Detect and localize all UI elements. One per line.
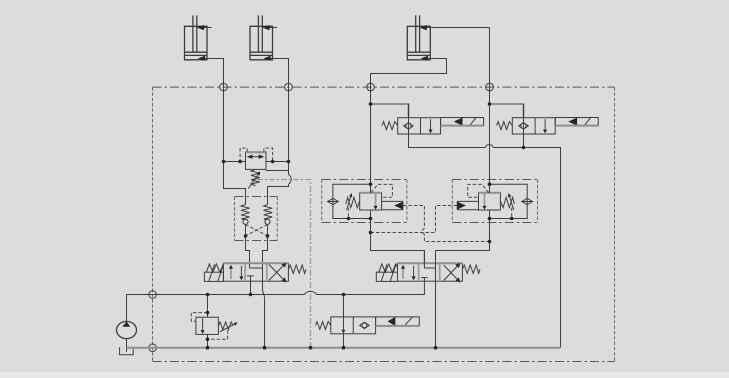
P line (pump pressure rail, hop over drain) <box>127 278 425 295</box>
directional valve DV2 body <box>398 263 463 281</box>
SV1 solenoid <box>441 118 484 126</box>
wire CYL1 to port A1 <box>205 59 245 205</box>
pilot loop right (dashed) <box>264 148 273 162</box>
CB2 bypass check valve <box>490 184 534 218</box>
wire DV1 P port to P-line <box>250 276 252 295</box>
lowering valve SV1 body <box>398 118 441 134</box>
DV1 position 1 arrows <box>229 265 244 281</box>
SV2 spring <box>497 122 513 130</box>
T line (tank return rail) <box>127 347 561 349</box>
RV1 spring (adjustable) <box>218 322 237 332</box>
wire CYL3 rod side to service line 2 <box>427 27 490 29</box>
wire SV1 through line and outlet to tank (hop over service line 2) <box>409 104 561 348</box>
check valve CV2 (right) <box>264 205 273 225</box>
CB2 spring drain (dashed) <box>511 208 513 219</box>
DV2 position 1 arrows <box>401 265 416 281</box>
DV1 right spring <box>288 265 306 273</box>
RV1 supply wire <box>207 295 209 318</box>
SV1 position 2 arrow <box>428 119 432 133</box>
relief spring under shuttle (adjustable) <box>248 169 260 188</box>
CB1 bypass check valve <box>327 184 371 218</box>
port circle P <box>149 291 157 299</box>
wire DV2 A port (U to B in centre) <box>424 251 435 269</box>
CB1 pilot piston <box>382 201 403 209</box>
relief drain line (gray dash-dot) to tank <box>257 180 311 348</box>
CB1 main line through box <box>371 184 425 263</box>
directional valve DV1 body <box>223 263 288 281</box>
wire CYL3 piston side to service line 1 <box>371 59 447 185</box>
SV2 solenoid <box>555 118 598 126</box>
CB1 remote pilot line (dashed, to service line 2) <box>403 206 490 242</box>
check valve CV1 (left) <box>241 205 250 225</box>
CB2 spring (adjustable) <box>500 193 514 210</box>
bypass valve SV3 body <box>331 317 376 334</box>
DV2 centre position blocked P (T-bar) <box>421 277 428 279</box>
wire shuttle outlet to service line 2 <box>266 170 289 172</box>
DV2 left proportional solenoid actuator <box>376 264 397 282</box>
CB1 internal pilot loop (dashed) <box>371 184 392 197</box>
CB1 spring (adjustable) <box>346 193 360 210</box>
port circle B1 <box>285 83 293 91</box>
enclosure boundary (dash-dot manifold box) <box>153 87 615 361</box>
DV2 position 3 crossed arrows <box>444 263 461 282</box>
cylinder CYL3 <box>407 15 430 60</box>
SV3 position 1 arrow <box>341 330 345 334</box>
SV3 poppet (diamond with seat) <box>360 322 369 328</box>
RV1 pilot line (dashed) <box>191 313 207 322</box>
CB1 spring drain (dashed) <box>347 208 349 219</box>
CB2 pilot piston <box>457 201 478 209</box>
SV2 poppet (diamond with seat) <box>519 123 529 130</box>
CB1 main valve box <box>360 193 382 210</box>
bottom white margin strip <box>0 371 729 378</box>
SV2 position 2 arrow <box>543 119 547 133</box>
counterbalance block CB2 boundary <box>452 180 537 223</box>
counterbalance block CB1 boundary <box>322 180 407 223</box>
wire shuttle right port <box>266 161 289 163</box>
port circle T <box>149 344 157 352</box>
relief valve RV1 box <box>196 317 219 334</box>
pump P1 <box>117 295 137 353</box>
RV1 outlet wire <box>207 334 209 347</box>
dual pilot check block boundary <box>235 197 278 241</box>
cylinder CYL1 <box>185 15 212 60</box>
port circle A1 <box>220 83 228 91</box>
SV1 poppet (diamond with seat) <box>404 123 414 130</box>
port circle B2 <box>486 83 494 91</box>
RV1 spring drain (dashed) <box>208 330 228 339</box>
wire SV2 through line to collector <box>523 104 525 148</box>
wire CYL2 to port B1 (with hop over drain pilot) <box>271 59 289 175</box>
DV1 left proportional solenoid actuator <box>204 264 223 282</box>
wire P-line to SV3 to tank <box>343 295 345 348</box>
SV1 spring <box>382 122 398 130</box>
DV1 position 3 crossed arrows <box>269 263 287 283</box>
SV3 solenoid <box>376 317 420 326</box>
CB2 main line through box <box>436 184 490 250</box>
pilot loop left (dashed) <box>240 148 247 162</box>
DV1 centre position blocked P (T-bar) <box>247 275 254 277</box>
wire service line 2 vertical <box>489 28 491 185</box>
CB2 main valve box <box>479 193 501 210</box>
CB2 internal pilot loop (dashed) <box>468 184 489 197</box>
wire feed to SV2 <box>490 104 524 118</box>
SV3 spring <box>315 322 330 330</box>
crossed pilot lines (dashed X) <box>246 224 268 236</box>
wire DV2 B/T port to tank line <box>435 251 437 348</box>
DV2 right spring <box>462 265 480 273</box>
shuttle valve SH1 body <box>246 152 267 170</box>
tank T1 <box>120 347 134 355</box>
cylinder CYL2 <box>250 15 277 60</box>
lowering valve SV2 body <box>512 118 555 134</box>
wire CV1 outlet to DV1 port A <box>246 224 263 268</box>
port circle A2 <box>367 83 375 91</box>
wire feed to SV1 <box>371 104 409 118</box>
CB2 remote pilot line (dashed, from service line 1) <box>371 206 458 233</box>
wire CV2 outlet to DV1 port B (through valve to tank with jog) <box>263 224 268 347</box>
wire shuttle left port <box>224 161 246 163</box>
